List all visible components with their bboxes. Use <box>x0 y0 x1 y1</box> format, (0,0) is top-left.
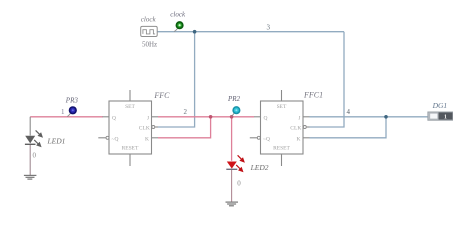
svg-text:clock: clock <box>170 11 186 19</box>
svg-text:3: 3 <box>267 24 271 32</box>
svg-text:0: 0 <box>33 152 37 160</box>
svg-text:RESET: RESET <box>273 146 290 152</box>
svg-text:0: 0 <box>237 180 241 188</box>
svg-text:~Q: ~Q <box>112 137 119 143</box>
clock source label <box>141 15 157 23</box>
wire net 1 vertical to LED1 <box>29 117 31 136</box>
flip-flop FFC1 title <box>303 90 323 99</box>
wire net 4 FFC1 J to DG1 <box>310 116 428 118</box>
clock source value 50Hz <box>142 40 157 48</box>
svg-text:1: 1 <box>61 108 65 116</box>
svg-text:SET: SET <box>277 104 287 110</box>
svg-text:~Q: ~Q <box>263 137 270 143</box>
junction net 2 at K loop <box>209 115 213 119</box>
LED LED1 label <box>47 136 66 145</box>
junction net 4 <box>384 115 388 119</box>
svg-text:SET: SET <box>125 104 135 110</box>
wire net 3 drop to FFC1 CLK <box>310 32 345 127</box>
svg-text:PR3: PR3 <box>65 96 79 104</box>
probe PR3 <box>67 107 76 117</box>
net label 4 <box>347 108 351 116</box>
indicator DG1 label <box>432 101 448 110</box>
svg-text:1: 1 <box>444 114 447 121</box>
wire net 2 FFC J to FFC1 Q <box>158 116 254 118</box>
wire net 0 LED1 to ground <box>29 145 31 176</box>
net label 0 at LED2 <box>237 180 241 188</box>
svg-text:FFC: FFC <box>153 91 170 100</box>
svg-text:clock: clock <box>141 15 157 23</box>
net label 2 <box>184 108 188 116</box>
svg-text:PR2: PR2 <box>227 95 241 103</box>
svg-text:RESET: RESET <box>122 146 139 152</box>
wire net 2 FFC K loop <box>158 117 211 138</box>
clock source V1 <box>141 26 158 36</box>
svg-text:LED2: LED2 <box>250 163 269 172</box>
probe PR3 label <box>65 96 79 104</box>
svg-text:LED1: LED1 <box>47 136 66 145</box>
junction net 3 at clock wire <box>193 30 197 34</box>
net label 3 <box>267 24 271 32</box>
svg-text:DG1: DG1 <box>432 101 448 110</box>
wire net 4 FFC1 K loop <box>310 117 387 138</box>
svg-text:CLK: CLK <box>139 126 150 132</box>
indicator DG1 <box>428 112 453 121</box>
wire net 1 FFC Q to LED1 <box>30 116 103 118</box>
flip-flop FFC1 <box>250 90 310 166</box>
wire net 2 drop to LED2 <box>231 117 233 161</box>
svg-text:K: K <box>145 137 149 143</box>
LED LED1 <box>25 130 43 147</box>
svg-text:FFC1: FFC1 <box>303 90 323 99</box>
svg-text:Q: Q <box>112 116 116 122</box>
LED LED2 <box>226 155 245 172</box>
wire net 3 clock horizontal <box>157 31 344 33</box>
probe clock label <box>170 11 186 19</box>
probe PR2 label <box>227 95 241 103</box>
wire net 0 LED2 to ground <box>231 170 233 202</box>
svg-text:K: K <box>297 137 301 143</box>
flip-flop FFC title <box>153 91 170 100</box>
LED LED2 label <box>250 163 269 172</box>
net label 1 <box>61 108 65 116</box>
svg-text:2: 2 <box>184 108 188 116</box>
probe clock (green) <box>174 22 183 32</box>
net label 0 at LED1 <box>33 152 37 160</box>
ground at LED1 <box>24 175 37 179</box>
svg-text:50Hz: 50Hz <box>142 40 157 48</box>
ground at LED2 <box>226 202 239 206</box>
junction net 2 at LED2 branch <box>230 115 234 119</box>
svg-text:Q: Q <box>264 116 268 122</box>
probe PR2 <box>232 107 240 117</box>
svg-text:CLK: CLK <box>290 126 301 132</box>
wire net 3 drop to FFC CLK <box>158 32 195 127</box>
svg-text:4: 4 <box>347 108 351 116</box>
flip-flop FFC <box>98 90 158 166</box>
